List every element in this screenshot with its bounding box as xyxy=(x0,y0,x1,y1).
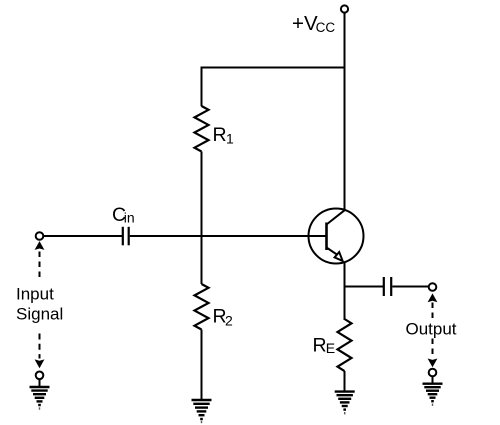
label RE xyxy=(313,335,336,357)
capacitor Cout xyxy=(384,277,391,296)
svg-text:Input: Input xyxy=(16,284,54,303)
terminal output ground xyxy=(429,369,437,377)
arrow input down (dashed) xyxy=(35,334,45,369)
svg-text:2: 2 xyxy=(225,313,233,329)
resistor R1 xyxy=(195,106,209,151)
svg-text:1: 1 xyxy=(226,131,234,147)
wire Cin to base xyxy=(130,235,327,237)
label Cin xyxy=(112,204,135,226)
wire emitter down xyxy=(344,262,346,320)
capacitor Cin xyxy=(123,227,129,246)
wire VCC vertical xyxy=(344,13,346,210)
terminal +VCC xyxy=(341,5,348,12)
terminal input-signal ground xyxy=(36,372,44,380)
resistor R2 xyxy=(195,284,209,329)
svg-text:R: R xyxy=(213,124,227,146)
svg-text:E: E xyxy=(326,340,335,356)
ground (below RE) xyxy=(335,392,355,414)
wire R2 to ground xyxy=(201,330,203,400)
resistor RE xyxy=(338,319,352,371)
arrow output up (dashed) xyxy=(428,293,438,320)
svg-text:in: in xyxy=(124,210,135,226)
arrow input up (dashed) xyxy=(35,241,45,281)
terminal input xyxy=(36,232,44,240)
svg-text:R: R xyxy=(313,335,327,357)
ground (input signal) xyxy=(30,379,50,408)
label +VCC xyxy=(292,12,335,35)
wire input to Cin xyxy=(43,235,122,237)
svg-text:+V: +V xyxy=(292,12,318,35)
svg-text:Signal: Signal xyxy=(16,305,63,324)
ground (below R2) xyxy=(192,400,212,422)
wire output branch xyxy=(345,286,384,288)
wire Cout to output terminal xyxy=(392,286,428,288)
label R2 xyxy=(213,306,234,329)
transistor Q1 xyxy=(309,209,364,264)
svg-text:Output: Output xyxy=(406,319,457,338)
wire RE to ground xyxy=(344,371,346,391)
wire top horizontal with corner to R1 xyxy=(202,68,345,107)
svg-text:CC: CC xyxy=(316,20,336,35)
ground (output) xyxy=(423,376,443,404)
label Input Signal xyxy=(16,284,63,323)
arrow output down (dashed) xyxy=(428,339,438,368)
terminal output xyxy=(429,283,437,291)
label R1 xyxy=(213,124,235,147)
wire R1 to R2 through base node xyxy=(201,152,203,285)
